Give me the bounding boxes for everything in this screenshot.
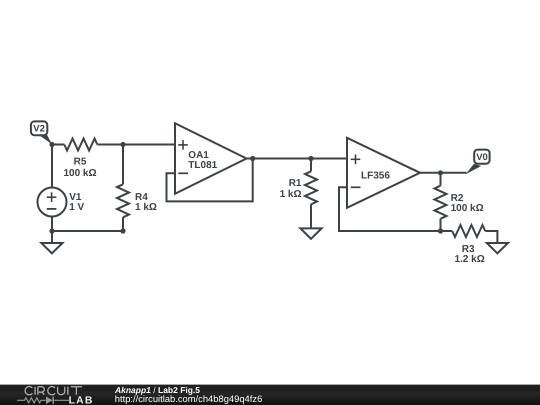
svg-text:1 V: 1 V bbox=[69, 202, 84, 213]
svg-text:V2: V2 bbox=[33, 124, 45, 135]
svg-text:LAB: LAB bbox=[69, 396, 94, 405]
svg-text:100 kΩ: 100 kΩ bbox=[63, 168, 96, 179]
svg-text:R1: R1 bbox=[289, 178, 302, 189]
svg-text:LF356: LF356 bbox=[361, 171, 390, 182]
svg-text:R5: R5 bbox=[74, 157, 87, 168]
svg-text:OA1: OA1 bbox=[188, 150, 209, 161]
svg-text:100 kΩ: 100 kΩ bbox=[451, 203, 484, 214]
svg-text:1 kΩ: 1 kΩ bbox=[280, 189, 302, 200]
svg-text:http://circuitlab.com/ch4b8g49: http://circuitlab.com/ch4b8g49q4fz6 bbox=[115, 393, 262, 404]
svg-text:1 kΩ: 1 kΩ bbox=[135, 202, 157, 213]
svg-text:1.2 kΩ: 1.2 kΩ bbox=[454, 254, 484, 265]
svg-text:V0: V0 bbox=[476, 152, 488, 163]
svg-text:TL081: TL081 bbox=[188, 160, 217, 171]
